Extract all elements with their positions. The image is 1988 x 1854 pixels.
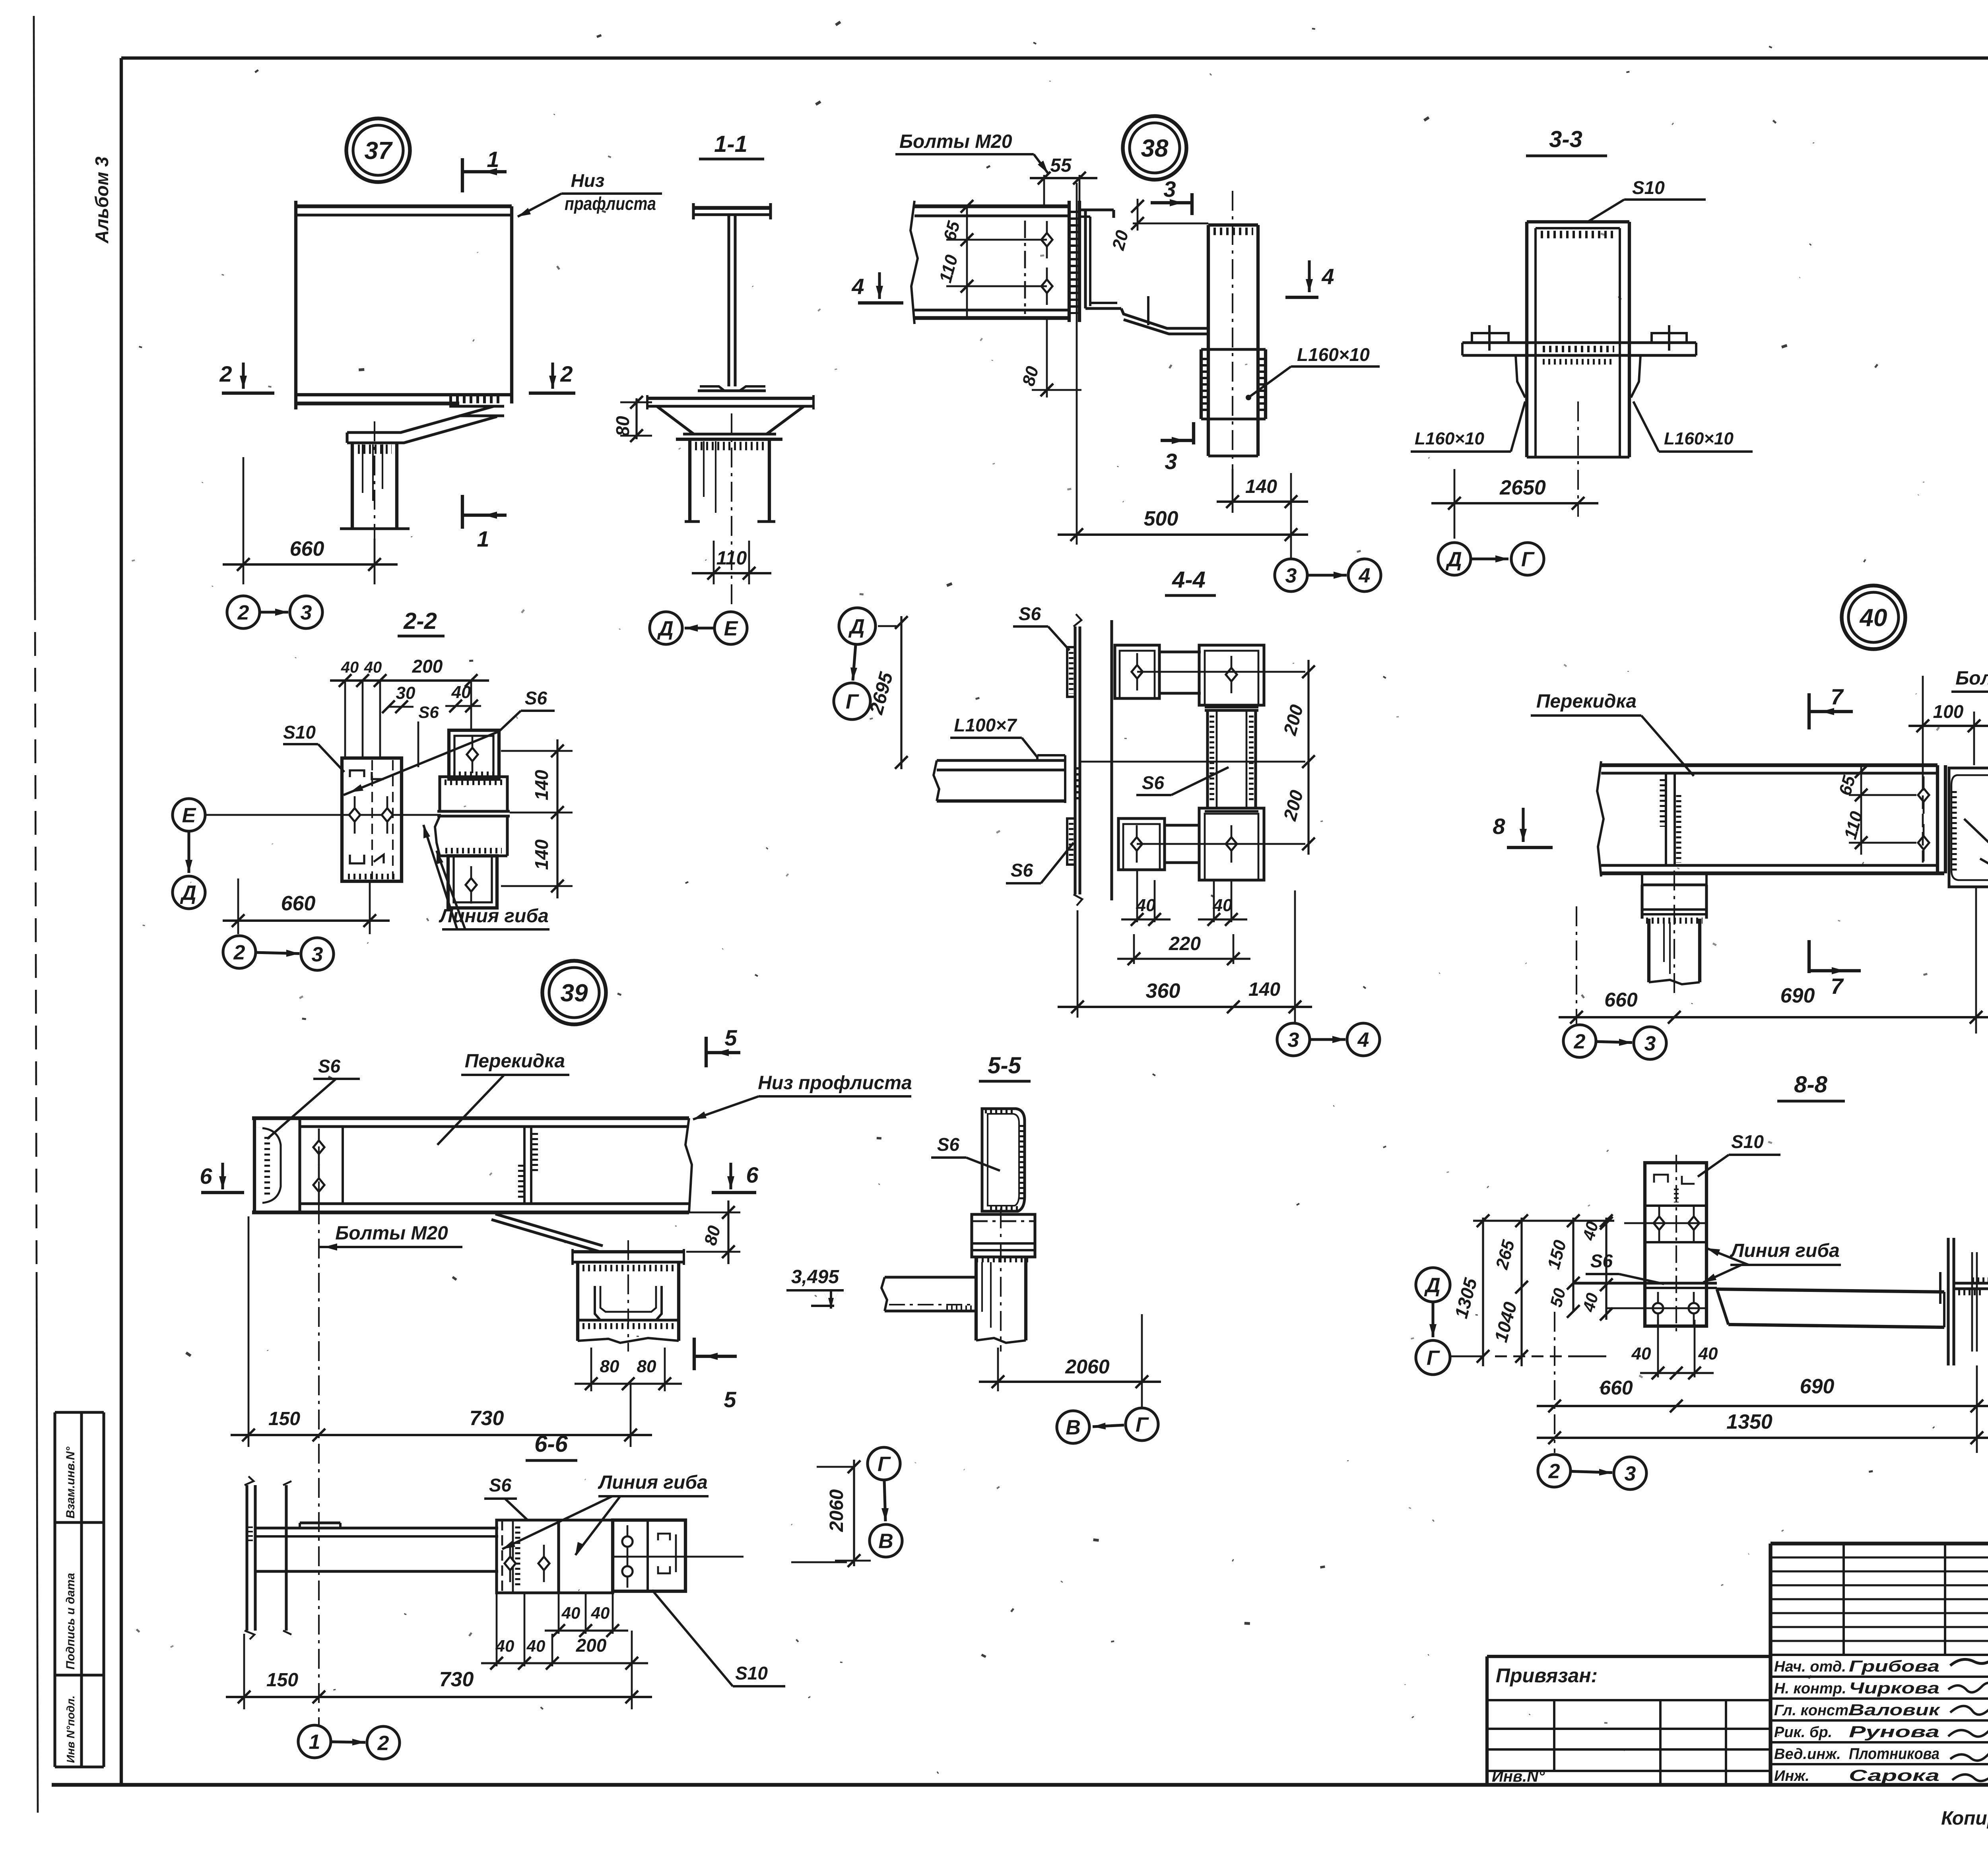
dims 660 690 8-8 [1554,1312,1555,1453]
dimension 265 1040 8-8 [1520,1218,1522,1366]
6-6 S10 bolts [627,1525,629,1558]
2-2 dim 40 right [445,705,481,707]
dimension 80 node38 [1046,318,1048,398]
svg-text:Болты М20: Болты М20 [1955,668,1988,689]
svg-text:Линия гиба: Линия гиба [1730,1240,1840,1261]
svg-text:Низ: Низ [571,170,605,191]
dimension 220 4-4 [1133,934,1135,964]
svg-text:730: 730 [470,1407,504,1430]
8-8 bent plate edge [1573,1282,1717,1284]
svg-text:3: 3 [1285,564,1297,588]
svg-text:Рунова: Рунова [1849,1723,1939,1741]
6-6 left column [245,1485,248,1631]
svg-text:Н. контр.: Н. контр. [1774,1680,1846,1697]
svg-text:S6: S6 [318,1056,341,1076]
svg-text:38: 38 [1141,135,1169,162]
svg-text:6: 6 [200,1164,212,1189]
2-2 dims 40 40 200 top [344,681,346,758]
svg-text:S6: S6 [1142,772,1165,793]
node37 seat plate hatched [449,396,502,403]
6-6 dims 40 40 right [558,1593,560,1634]
8-8 right column web [1954,1282,1988,1284]
section mark 3 bottom [1161,439,1194,442]
svg-text:200: 200 [576,1635,607,1656]
svg-text:40: 40 [364,659,382,676]
svg-text:Рик. бр.: Рик. бр. [1774,1724,1832,1741]
dimension 140 node38 [1232,469,1234,513]
2-2 bottom bracket bolt [470,866,472,904]
svg-text:360: 360 [1146,979,1180,1003]
node40 column cap [1641,873,1643,885]
svg-text:2: 2 [233,941,245,964]
svg-text:L160×10: L160×10 [1297,344,1370,365]
dimension 20 node38 [1133,223,1208,225]
svg-text:В: В [1066,1416,1081,1439]
svg-text:Нач. отд.: Нач. отд. [1774,1658,1846,1675]
title block small grid [1771,1556,1988,1558]
svg-text:S6: S6 [1590,1251,1613,1271]
svg-text:S10: S10 [283,722,316,743]
1-1 column [688,439,691,522]
6-6 top plate [300,1521,340,1524]
node40 bolts [1923,776,1925,814]
3-3 left fillet flare [1516,355,1525,398]
svg-text:Болты М20: Болты М20 [335,1223,448,1244]
8-8 top dim chain line [1473,1220,1614,1222]
signature scrawls [1950,1635,1988,1666]
8-8 dims 40 40 bottom [1657,1320,1659,1377]
svg-text:2-2: 2-2 [403,608,437,634]
svg-text:Г: Г [846,690,859,714]
6-6 dims 40 40 200 bottom [496,1593,498,1666]
1-1 bearing plate [647,397,813,400]
svg-text:690: 690 [1800,1375,1835,1398]
section mark 1 bottom [461,495,464,529]
dimension 200 200 4-4 [1307,660,1309,855]
grid bubbles 1-2 6-6 [298,1725,331,1758]
svg-text:В: В [878,1530,893,1553]
svg-text:S6: S6 [489,1475,512,1495]
2-2 sleeve box [440,777,507,811]
svg-text:S6: S6 [937,1134,960,1155]
node38 dim extension 65-110 [966,206,968,318]
node40 beam outline [1601,763,1938,767]
left margin box column [53,1412,56,1767]
node39 column [576,1262,579,1341]
grid bubbles 3-4 node38 [1290,555,1292,559]
3-3 column bottom [1527,456,1629,458]
2-2 dims 140 140 [501,750,573,752]
4-4 angle L100x7 [937,759,1065,762]
svg-text:3: 3 [1644,1032,1656,1055]
4-4 top bracket arm [1159,650,1201,653]
6-6 left bracket [497,1520,559,1593]
svg-text:1: 1 [477,526,489,551]
section mark 3 top [1151,201,1192,204]
node39 left closure plate [253,1118,256,1212]
svg-text:1-1: 1-1 [714,131,747,157]
6-6 bracket bolts [509,1545,511,1582]
svg-text:660: 660 [1604,989,1638,1011]
node37 beam web outline [294,201,297,409]
svg-text:2: 2 [219,361,232,386]
5-5 sleeve [972,1214,1035,1257]
svg-text:30: 30 [396,683,415,703]
svg-text:40: 40 [1859,604,1887,632]
2-2 axis line E [206,814,441,816]
svg-text:Грибова: Грибова [1849,1658,1939,1675]
svg-text:37: 37 [365,137,393,165]
svg-text:2650: 2650 [1499,476,1546,499]
svg-text:Д: Д [657,617,674,640]
node38 beam end plate [1068,201,1071,322]
svg-text:Вед.инж.: Вед.инж. [1774,1746,1841,1763]
sheet left edge line [34,16,35,596]
node39 bent strap [495,1214,603,1246]
node37 column stub [351,443,354,529]
svg-text:200: 200 [412,656,443,677]
svg-text:2: 2 [237,601,249,624]
svg-text:5-5: 5-5 [988,1053,1021,1078]
svg-text:40: 40 [1213,896,1233,915]
grid bubble Г 4-4 [834,683,870,719]
grid bubble Е 2-2 [173,799,205,831]
4-4 column web [1074,626,1076,894]
8-8 upper bolts [1658,1204,1660,1242]
svg-text:S6: S6 [418,703,439,721]
svg-text:55: 55 [1050,155,1072,176]
svg-text:Копировал:: Копировал: [1941,1808,1988,1829]
node38 column centerline [1232,191,1233,469]
svg-text:1: 1 [309,1731,320,1754]
svg-text:4: 4 [851,274,864,299]
dimension 2060 6-6 [853,1460,855,1566]
svg-text:3-3: 3-3 [1549,126,1582,152]
svg-text:2060: 2060 [1065,1356,1109,1378]
dimension 1305 8-8 [1482,1218,1484,1366]
svg-text:Г: Г [1427,1347,1440,1370]
4-4 weld ticks at column [1074,767,1081,803]
dimension 100 node40 [1922,676,1924,777]
node37 beam bottom flange [296,393,512,396]
3-3 column box inner [1534,228,1537,457]
node37 bent strap [347,406,494,432]
svg-text:1: 1 [487,147,499,172]
svg-text:Д: Д [1445,548,1462,571]
svg-text:40: 40 [1698,1344,1718,1363]
2-2 plate bend tabs top [350,770,364,777]
5-5 column bottom [976,1338,1026,1343]
dimension 500 node38 [1076,183,1078,545]
svg-text:80: 80 [612,416,633,436]
grid bubbles 2-3 node40 [1563,1025,1596,1057]
svg-text:220: 220 [1169,933,1201,954]
2-2 plate dashed lines [371,760,373,879]
node39 column bottom break [578,1338,679,1343]
node39 channel inside [595,1286,662,1320]
4-4 column break top [1074,614,1081,626]
svg-text:Валовик: Валовик [1849,1701,1940,1719]
grid bubble Г 8-8 [1416,1340,1450,1375]
node bubble 37 [346,118,410,182]
grid bubble Д 2-2 [173,876,205,909]
svg-text:Д: Д [180,882,196,905]
grid bubbles 2-3 8-8 [1538,1454,1571,1487]
svg-text:39: 39 [561,979,588,1007]
3-3 mid connection plates [1527,341,1629,344]
1-1 I-beam bottom flange [700,386,765,391]
node38 column [1207,225,1210,456]
dimension 360 140 4-4 [1077,910,1079,1018]
dimension 150 730 6-6 [243,1634,245,1709]
svg-text:7: 7 [1831,684,1844,709]
privyazan rows [1487,1699,1771,1701]
svg-text:100: 100 [1933,701,1964,722]
node40 beam end plate [1936,765,1939,873]
section mark 5 top [705,1037,708,1067]
svg-text:660: 660 [290,537,324,560]
drawing frame [120,58,123,1785]
node38 bolt centerline [1024,221,1026,314]
scan specks [596,34,602,38]
svg-text:Гл. конст.: Гл. конст. [1774,1702,1852,1719]
node40 dim 65 110 [1860,765,1862,855]
svg-text:Болты М20: Болты М20 [899,131,1012,152]
svg-text:Плотникова: Плотникова [1849,1745,1939,1763]
4-4 top bracket right block [1199,645,1264,705]
svg-text:Г: Г [1136,1414,1149,1437]
2-2 dim 30 [388,706,414,708]
svg-text:690: 690 [1780,984,1815,1007]
grid bubble В 6-6 [870,1524,902,1557]
svg-text:4: 4 [1359,564,1371,588]
node40 column bottom break [1649,980,1700,984]
svg-text:1350: 1350 [1726,1410,1773,1433]
svg-text:40: 40 [451,683,471,702]
2-2 S10 plate [342,758,402,881]
1-1 I-beam web [727,215,730,386]
svg-text:4: 4 [1321,264,1334,289]
svg-text:80: 80 [637,1357,656,1376]
svg-text:L160×10: L160×10 [1664,429,1734,448]
3-3 column centerline [1577,401,1579,517]
svg-text:Е: Е [182,804,196,827]
node40 end channel [1949,768,1988,887]
2-2 lower box [435,816,440,856]
5-5 beam from left [885,1276,976,1278]
privyazan block outline [1485,1656,1489,1785]
svg-text:Е: Е [724,617,738,640]
section mark 2 left [222,392,274,395]
grid bubbles В-Г 5-5 [1057,1411,1089,1443]
6-6 bend tab glyphs [658,1534,670,1540]
dimension 80 node39 [689,1212,740,1214]
section mark 2 right [529,392,575,395]
svg-text:Сарока: Сарока [1849,1767,1939,1784]
svg-text:150: 150 [266,1670,298,1691]
4-4 S6 plate lower left [1067,818,1075,865]
2-2 sleeve band [437,810,510,813]
node39 right end break [685,1118,692,1212]
section mark 5 bottom [693,1338,696,1370]
4-4 middle plates [1208,710,1256,808]
svg-text:2: 2 [1574,1030,1586,1053]
section mark 7 bottom [1807,940,1811,973]
1-1 bearing trapezoid [657,406,694,434]
dims 660 690 node40 [1576,906,1577,1025]
svg-text:Перекидка: Перекидка [1536,691,1637,712]
svg-text:Привязан:: Привязан: [1496,1664,1598,1687]
svg-text:Взам.инв.N°: Взам.инв.N° [64,1446,77,1518]
svg-text:L160×10: L160×10 [1415,429,1484,448]
svg-text:140: 140 [1248,979,1280,1000]
node38 connection angle [1079,208,1114,211]
6-6 beam [255,1526,498,1529]
dimension 2650 3-3 [1454,469,1456,539]
svg-text:Г: Г [1521,548,1535,571]
svg-text:7: 7 [1831,974,1844,999]
node38 strap to column [1121,308,1208,328]
svg-text:40: 40 [526,1637,546,1655]
svg-text:3: 3 [312,943,323,966]
node38 column bottom [1208,454,1258,457]
8-8 S10 plate [1645,1163,1706,1326]
svg-text:Д: Д [848,615,865,638]
node37 beam top flange [296,204,512,208]
svg-text:Чиркова: Чиркова [1849,1679,1939,1697]
2-2 right assembly top bracket [449,730,499,779]
svg-text:6: 6 [746,1162,759,1187]
grid bubbles Д-Е 1-1 [650,612,682,644]
grid bubbles Д-Г 3-3 [1438,543,1471,575]
svg-text:3,495: 3,495 [791,1266,839,1288]
svg-text:Подпись и дата: Подпись и дата [64,1573,77,1670]
3-3 right angle tab [1652,333,1687,343]
svg-text:6-6: 6-6 [534,1431,568,1457]
4-4 bolt axis lines [1137,671,1305,673]
3-3 left angle leg [1462,341,1527,344]
dimension 2060 5-5 [997,1348,999,1391]
4-4 bottom bracket arm [1165,824,1199,826]
8-8 beam plan [1717,1289,1944,1292]
svg-text:5: 5 [724,1387,736,1412]
svg-text:прафлиста: прафлиста [565,193,656,214]
svg-text:8: 8 [1493,814,1505,839]
3-3 right fillet flare [1631,355,1640,398]
1-1 column centerline [731,413,732,604]
4-4 S6 plate upper left [1067,647,1075,697]
2-2 plate bolts [354,796,356,834]
grid bubbles 2-3 node37 [227,596,260,628]
5-5 channel [982,1109,1025,1211]
svg-text:Инж.: Инж. [1774,1768,1809,1784]
svg-text:40: 40 [1631,1344,1651,1363]
title block staff rows [1771,1654,1988,1656]
4-4 bottom bracket left block [1118,818,1165,870]
node38 beam bottom flange [914,308,1069,311]
node40 stiffener [1665,773,1667,865]
node bubble 39 [542,961,606,1024]
svg-text:S10: S10 [735,1663,768,1683]
6-6 middle plate [559,1520,613,1593]
svg-text:Перекидка: Перекидка [465,1051,565,1072]
svg-text:Линия гиба: Линия гиба [598,1472,708,1493]
node38 L160x10 sleeve [1200,349,1203,419]
svg-text:4-4: 4-4 [1172,567,1206,593]
3-3 column box outer [1525,222,1528,457]
node40 column shaft [1647,919,1650,982]
4-4 bottom bracket right block [1199,808,1264,880]
grid bubble Д 8-8 [1416,1268,1450,1302]
8-8 axis line Г [1450,1356,1484,1358]
svg-text:40: 40 [1136,896,1156,915]
2-2 plate bend tabs bottom [350,855,364,863]
svg-text:140: 140 [531,770,552,800]
node38 bolt M20 upper [1046,221,1048,258]
svg-text:3: 3 [1288,1029,1299,1052]
grid bubbles 2-3 2-2 [223,936,256,968]
svg-text:80: 80 [600,1357,619,1376]
section mark 6 left [221,1163,224,1189]
node38 beam left break [911,201,918,324]
node40 column centerline [1673,871,1675,994]
dimension 110 1-1 [713,541,715,584]
3-3 right angle leg [1629,341,1696,344]
svg-text:2: 2 [1548,1460,1560,1483]
4-4 column break bottom [1074,894,1082,906]
svg-text:140: 140 [1245,476,1277,497]
svg-text:S6: S6 [1011,860,1033,880]
svg-text:Инв.N°: Инв.N° [1492,1768,1545,1785]
svg-text:3: 3 [1625,1462,1636,1486]
svg-text:2: 2 [377,1732,389,1755]
node37 column base tick [340,527,410,530]
svg-text:40: 40 [341,659,359,676]
2-2 top bracket bolt [472,736,474,773]
svg-text:3: 3 [1163,176,1176,202]
8-8 axis lines [1624,1222,1706,1224]
svg-text:S10: S10 [1731,1131,1764,1152]
section mark 6 right [729,1163,732,1189]
node38 bolt M20 lower [1046,268,1048,305]
dimension 1350 8-8 [1537,1437,1988,1439]
dimension 40 40 8-8 left [1605,1218,1607,1320]
grid bubble Г 6-6 [868,1447,900,1480]
svg-text:3: 3 [1165,449,1177,474]
node bubble 40 [1842,586,1905,649]
svg-text:L100×7: L100×7 [954,715,1017,735]
svg-text:Низ профлиста: Низ профлиста [758,1072,912,1094]
node40 column box [1640,885,1643,919]
title block outline [1769,1544,1772,1785]
4-4 top bracket left block [1115,645,1159,698]
svg-text:Г: Г [878,1453,891,1476]
node40 beam left break [1597,761,1604,877]
svg-text:S6: S6 [1019,603,1041,624]
1-1 I-beam top flange [693,206,771,209]
node39 column centerline [627,1240,629,1352]
8-8 bend tabs upper [1654,1175,1668,1183]
node39 beam outline [252,1116,689,1120]
4-4 dims 40 40 bottom [1136,870,1138,922]
svg-text:2060: 2060 [826,1489,847,1532]
svg-text:500: 500 [1144,507,1178,530]
svg-text:140: 140 [531,839,552,870]
8-8 lower bolts [1657,1292,1659,1325]
node39 mid stiffener [523,1127,526,1204]
node39 bolts M20 [318,1129,320,1166]
svg-text:660: 660 [1600,1377,1633,1399]
